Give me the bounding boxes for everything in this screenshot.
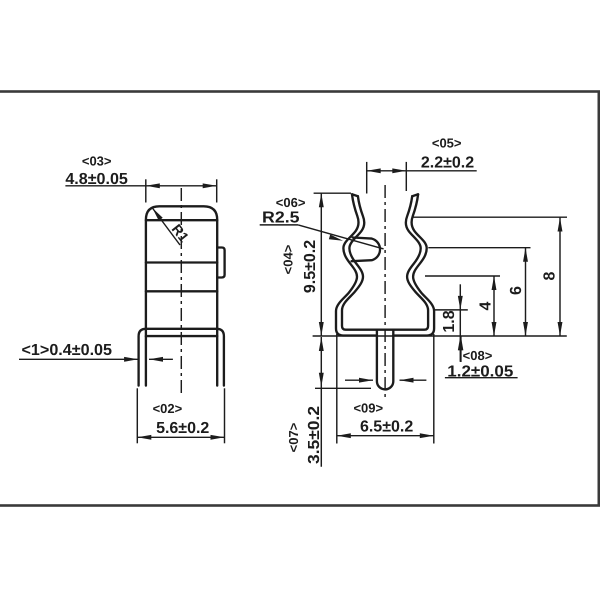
svg-text:<09>: <09> <box>353 400 383 415</box>
svg-text:<04>: <04> <box>281 244 296 274</box>
svg-text:<08>: <08> <box>463 348 493 363</box>
svg-text:3.5±0.2: 3.5±0.2 <box>306 406 323 464</box>
svg-text:R2.5: R2.5 <box>262 210 300 227</box>
svg-text:R1: R1 <box>169 221 193 245</box>
svg-text:1.2±0.05: 1.2±0.05 <box>447 364 513 381</box>
svg-text:2.2±0.2: 2.2±0.2 <box>421 155 474 172</box>
svg-text:<05>: <05> <box>432 136 462 151</box>
svg-text:4: 4 <box>478 301 495 310</box>
svg-text:1.8: 1.8 <box>441 310 458 332</box>
svg-text:<1>0.4±0.05: <1>0.4±0.05 <box>22 342 113 359</box>
svg-text:<07>: <07> <box>286 422 301 452</box>
svg-text:<06>: <06> <box>276 195 306 210</box>
svg-text:9.5±0.2: 9.5±0.2 <box>302 240 319 293</box>
svg-text:6.5±0.2: 6.5±0.2 <box>360 418 413 435</box>
svg-text:6: 6 <box>508 286 525 295</box>
svg-text:5.6±0.2: 5.6±0.2 <box>156 420 209 437</box>
svg-text:<02>: <02> <box>153 401 183 416</box>
svg-text:4.8±0.05: 4.8±0.05 <box>65 171 128 188</box>
svg-text:<03>: <03> <box>82 154 112 169</box>
svg-text:8: 8 <box>542 271 559 280</box>
